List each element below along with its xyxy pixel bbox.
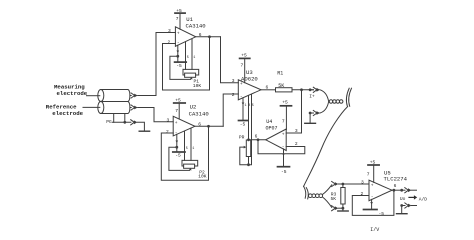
ground (PG) — [139, 130, 149, 132]
potentiometer P2 10K — [182, 160, 184, 166]
svg-text:3: 3 — [361, 179, 364, 185]
svg-text:3: 3 — [167, 117, 170, 123]
svg-text:AD620: AD620 — [241, 75, 258, 82]
svg-text:7: 7 — [241, 63, 244, 69]
svg-text:5: 5 — [252, 104, 254, 108]
wire U5 output — [392, 189, 405, 191]
pin 6 label U5 — [394, 183, 397, 189]
-5 supply U1 — [175, 61, 187, 63]
pin 3 label U5 — [361, 179, 364, 185]
wire to ground — [401, 206, 403, 214]
cable break marks (upper) — [346, 88, 349, 106]
pin 7 label U5 — [367, 172, 370, 178]
svg-text:U2: U2 — [190, 103, 197, 110]
wire lower twisted pair lead-out — [323, 185, 332, 195]
svg-text:+: + — [282, 132, 285, 137]
+5 supply U4 pin7 — [285, 107, 287, 130]
wire I+ lower to ground — [309, 113, 311, 123]
pin 5 wire U2 to pot — [184, 131, 186, 160]
svg-text:7: 7 — [367, 172, 370, 178]
junction R3 bottom — [342, 207, 345, 210]
svg-text:+5: +5 — [282, 100, 288, 106]
wire to U5 pin3 — [338, 183, 369, 185]
svg-text:I+: I+ — [309, 93, 315, 99]
svg-text:-5: -5 — [176, 63, 182, 69]
pin 2 label U1 — [168, 39, 171, 45]
pin 3 label U3 — [232, 78, 235, 84]
svg-text:R1: R1 — [277, 71, 283, 77]
connector (reference output) — [130, 105, 138, 110]
wire reference to U2 pin3 — [138, 108, 174, 122]
svg-text:3: 3 — [168, 28, 171, 34]
svg-text:-5: -5 — [379, 211, 385, 217]
svg-text:Uo: Uo — [400, 196, 406, 202]
pin 2 label U3 — [232, 92, 235, 98]
pin 3 label U1 — [168, 28, 171, 34]
svg-text:-: - — [240, 95, 243, 100]
+5 supply U5 pin7 — [373, 166, 375, 183]
junction R3 top — [342, 183, 345, 186]
svg-text:7: 7 — [176, 16, 179, 22]
pin 7 label U4 — [282, 119, 285, 125]
wire P2 wiper to pin4 node — [169, 147, 190, 170]
junction U2 pin4/wiper — [175, 146, 178, 149]
svg-text:U4: U4 — [266, 119, 272, 125]
svg-text:I/V: I/V — [370, 227, 379, 233]
connector (I+ lower) — [310, 110, 320, 115]
svg-text:3: 3 — [295, 128, 298, 134]
node PG label — [106, 119, 112, 125]
pin 3 label U2 — [167, 117, 170, 123]
connector (I+ upper) — [310, 87, 320, 92]
op-amp U3 AD620 — [238, 80, 261, 100]
wire P1 wiper to pin4 node — [170, 56, 191, 79]
wire U2 output — [195, 125, 223, 127]
svg-text:-5: -5 — [281, 169, 287, 175]
svg-text:2: 2 — [166, 129, 169, 135]
wire R1 node to U4 pin3 — [286, 90, 301, 133]
op-amp U1 CA3140 — [175, 27, 195, 47]
pin labels 1 8 5 U3 — [245, 104, 254, 108]
pin 7 label U3 — [241, 63, 244, 69]
connector (Uo output) — [405, 188, 417, 193]
pin 1 wire U3 to PR pot top — [248, 96, 250, 140]
-5 supply U2 — [173, 151, 185, 153]
twisted pair coil (upper) — [329, 100, 332, 103]
junction PR top / U4 output — [247, 138, 250, 141]
pin 6 label U1 — [199, 32, 202, 38]
pin 6 label U2 — [198, 121, 201, 127]
resistor R1 5K — [276, 88, 293, 92]
junction U5 output — [393, 189, 396, 192]
svg-text:6: 6 — [394, 183, 397, 189]
pin 2 label U4 — [295, 141, 298, 147]
node Measuring electrode label — [54, 83, 88, 97]
svg-text:PR: PR — [239, 135, 245, 141]
wire shield drops to PG line — [113, 114, 115, 123]
svg-text:7: 7 — [175, 108, 178, 114]
junction I+ lower — [309, 112, 312, 115]
ground (I+ lower) — [305, 122, 316, 124]
svg-text:5: 5 — [186, 147, 188, 151]
wire U1 output to U3 pin3 — [221, 37, 239, 83]
svg-text:10K: 10K — [193, 83, 202, 89]
wire PR wiper to bottom — [240, 147, 249, 165]
svg-text:6: 6 — [255, 133, 258, 139]
connector (R3 lower) — [332, 206, 339, 211]
svg-text:+5: +5 — [241, 53, 247, 59]
wire measuring electrode to cable — [87, 95, 100, 97]
svg-text:2: 2 — [168, 39, 171, 45]
node Reference electrode label — [46, 104, 84, 118]
svg-text:OP07: OP07 — [266, 125, 278, 131]
pin 4 wire U3 to -5 — [242, 98, 244, 120]
wire PG line — [113, 121, 131, 123]
pin 5 wire U1 to pot — [185, 42, 187, 70]
junction U2 output — [207, 125, 210, 128]
svg-text:TLC2274: TLC2274 — [384, 176, 408, 183]
wire measuring to U1 pin3 — [138, 33, 176, 96]
svg-text:+: + — [371, 184, 374, 189]
junction PG — [123, 121, 126, 124]
shielded cable (reference) — [98, 102, 130, 114]
svg-text:+5: +5 — [370, 160, 376, 166]
-5 supply U4 — [278, 166, 290, 168]
potentiometer PR — [246, 140, 250, 157]
svg-text:A/D: A/D — [419, 196, 428, 202]
svg-text:+: + — [175, 121, 178, 126]
wire U1 feedback to pin2 — [163, 37, 210, 90]
pin 2 label U5 — [361, 191, 364, 197]
svg-text:3: 3 — [232, 78, 235, 84]
pin 7 label U1 — [176, 16, 179, 22]
svg-text:electrode: electrode — [52, 110, 83, 117]
wire U1 output — [196, 36, 221, 38]
connector (ground return) — [402, 203, 417, 208]
junction I+ — [309, 88, 312, 91]
op-amp U2 CA3140 — [173, 116, 195, 136]
svg-text:10K: 10K — [198, 173, 207, 179]
junction U1 pin4/wiper — [176, 55, 179, 58]
pin 7 label U2 — [175, 108, 178, 114]
pin 6 label U4 — [255, 133, 258, 139]
junction ground return — [400, 204, 403, 207]
pin 4 wire U1 to -5 — [177, 45, 179, 62]
connector (measuring output) — [130, 93, 138, 98]
pin 4 wire U5 to -5 — [371, 199, 373, 209]
-5 supply U3 — [239, 120, 249, 122]
resistor R3 5K — [342, 184, 344, 188]
connector (R3 upper) — [332, 181, 339, 186]
wire U5 feedback to pin2 — [352, 190, 394, 215]
-5 supply U5 — [364, 209, 378, 211]
shielded cable (measuring) — [98, 90, 130, 102]
+5 supply U1 pin7 — [179, 14, 181, 29]
pin 4 wire U4 to -5 — [283, 149, 285, 167]
svg-text:-5: -5 — [240, 122, 246, 128]
svg-text:CA3140: CA3140 — [189, 111, 210, 118]
svg-text:CA3140: CA3140 — [186, 23, 207, 30]
pin 4 wire U2 to -5 — [176, 134, 178, 151]
svg-text:+: + — [240, 82, 243, 87]
wire U3 output to R1 — [261, 89, 276, 91]
wire PR bottom — [248, 157, 250, 165]
svg-text:+5: +5 — [175, 98, 181, 104]
potentiometer P1 10K — [183, 69, 185, 75]
pin 1 wire U1 to pot — [191, 39, 193, 70]
long cable curve — [304, 107, 348, 187]
pin 2 label U2 — [166, 129, 169, 135]
wire upper twisted pair lead-in — [320, 90, 329, 101]
node Uo to A/D label — [409, 196, 415, 198]
+5 supply U2 pin7 — [178, 104, 180, 119]
wire PG to ground — [137, 122, 144, 131]
wire R3 lower connector — [338, 207, 343, 209]
ground (R3) — [338, 210, 348, 212]
svg-text:electrode: electrode — [57, 90, 88, 97]
pin 3 label U4 — [295, 128, 298, 134]
cable break marks (lower) — [304, 186, 306, 198]
ground (output) — [397, 213, 408, 215]
junction PR bottom — [247, 163, 250, 166]
svg-text:2: 2 — [232, 92, 235, 98]
svg-text:1: 1 — [192, 147, 194, 151]
junction U1 output — [208, 35, 211, 38]
svg-text:7: 7 — [282, 119, 285, 125]
op-amp U4 OP07 (mirrored) — [266, 129, 287, 151]
pin 6 label U3 — [266, 84, 269, 90]
junction R1 out — [300, 88, 303, 91]
wire U4 feedback to pin2 — [258, 140, 305, 154]
twisted pair coil (lower) — [309, 194, 313, 198]
wire U4 output to PR top — [249, 139, 266, 141]
svg-text:1: 1 — [193, 56, 195, 60]
connector (PG) — [131, 120, 138, 125]
op-amp U5 TLC2274 — [369, 180, 392, 201]
svg-text:5K: 5K — [278, 83, 284, 89]
wire R1 to I+ connector — [292, 89, 314, 91]
svg-text:5K: 5K — [331, 196, 337, 202]
svg-text:-5: -5 — [175, 153, 181, 159]
node I/V label — [370, 227, 379, 233]
pin 1 wire U2 to pot — [190, 128, 192, 160]
svg-text:5: 5 — [187, 56, 189, 60]
svg-text:+5: +5 — [176, 8, 182, 14]
svg-text:+: + — [177, 32, 180, 37]
svg-text:1: 1 — [245, 104, 247, 108]
svg-text:PG: PG — [106, 119, 112, 125]
+5 supply U3 pin7 — [244, 59, 246, 83]
junction U4 output — [257, 138, 260, 141]
pin 8 wire U3 to PR pot bottom — [249, 94, 252, 165]
wire reference electrode to cable — [83, 106, 100, 108]
wire U2 feedback to pin2 — [161, 126, 208, 180]
wire U2 output to U3 pin2 — [223, 94, 238, 126]
